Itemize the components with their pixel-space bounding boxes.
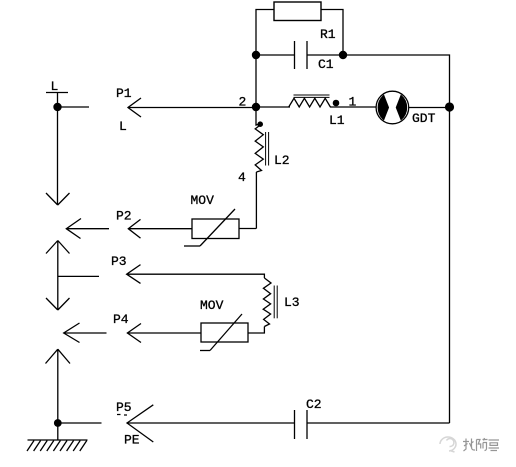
wire [255,55,257,107]
svg-text:P1: P1 [116,86,132,101]
svg-text:L1: L1 [329,113,345,128]
node [257,121,263,127]
wire [58,275,99,277]
wire [321,10,343,56]
wire [127,422,295,424]
arrow P3 [111,254,141,283]
svg-text:L3: L3 [284,295,300,310]
node [53,103,61,111]
wire [128,228,192,230]
wire [409,107,450,109]
wire [66,228,109,230]
svg-text:C2: C2 [306,397,322,412]
inductor L3 [263,278,299,327]
inductor L1 [256,95,376,128]
svg-text:P4: P4 [113,312,129,327]
node [339,51,347,59]
svg-text:R1: R1 [320,27,336,42]
resistor R1 [274,2,336,42]
capacitor C1 [295,41,334,72]
wire [127,274,265,278]
wire [239,228,256,230]
node 2 [239,95,261,112]
varistor MOV1 [184,193,239,246]
wire right rail [449,107,451,423]
arrow up [46,241,70,311]
inductor L2 [238,125,290,185]
svg-text:P5: P5 [116,400,132,415]
gas discharge tube GDT [376,91,436,126]
svg-text:PE: PE [124,433,140,448]
arrow up [46,349,71,423]
wire [127,332,201,334]
arrow P4 [64,312,141,343]
wire [255,172,257,229]
svg-text:2: 2 [239,95,247,110]
node [252,51,260,59]
wire [57,423,59,440]
svg-text:MOV: MOV [200,298,224,313]
wire [307,422,450,424]
svg-text:L: L [51,79,59,94]
wire [128,107,256,109]
wire [343,55,450,107]
watermark text [463,438,499,451]
watermark logo [440,437,456,452]
svg-text:L2: L2 [274,153,290,168]
arrow down [46,107,70,205]
node [445,102,454,111]
wire [256,54,295,56]
wire [307,54,343,56]
varistor MOV2 [200,298,248,351]
wire [58,106,90,108]
wire [64,332,107,334]
svg-text:P2: P2 [116,209,132,224]
capacitor C2 [295,397,322,439]
svg-text:GDT: GDT [412,111,436,126]
arrow P5 [116,400,153,448]
wire [248,327,264,334]
svg-text:L: L [119,119,127,134]
terminal L [46,79,68,107]
wire [256,10,274,56]
arrow P1 [116,86,141,134]
node [54,419,62,427]
svg-text:MOV: MOV [191,193,215,208]
arrow P2 [66,209,140,239]
svg-text:C1: C1 [318,57,334,72]
svg-text:1: 1 [349,95,357,110]
wire [256,107,260,125]
node 1 [333,95,357,110]
svg-text:P3: P3 [111,254,127,269]
arrow down [46,298,70,310]
wire [58,422,102,424]
svg-text:4: 4 [238,170,246,185]
ground PE [27,440,88,451]
